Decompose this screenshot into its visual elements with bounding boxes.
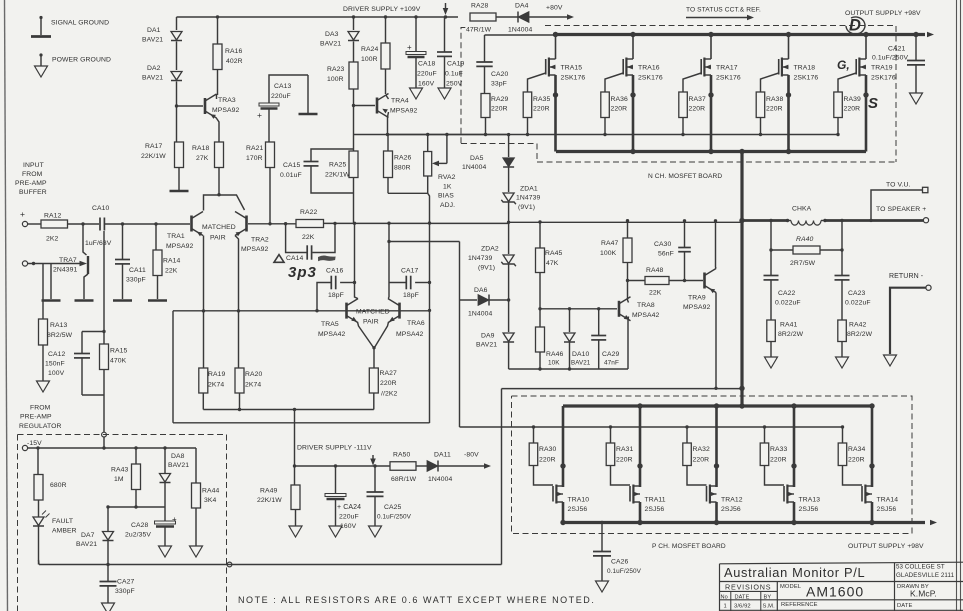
gate terminal — [22, 261, 27, 266]
svg-text:TRA9: TRA9 — [688, 295, 706, 302]
wire CA10-TRA1 — [105, 223, 190, 225]
inductor CHKA — [788, 220, 792, 222]
svg-text:CA26: CA26 — [611, 559, 629, 566]
wire CA13 bracket — [269, 75, 308, 103]
svg-text:CA28: CA28 — [131, 522, 149, 529]
node RA25/TRA5 — [353, 222, 356, 225]
svg-text:TO V.U.: TO V.U. — [886, 182, 911, 189]
node x429 — [428, 221, 431, 224]
svg-text:47nF: 47nF — [604, 360, 619, 367]
svg-text:TRA12: TRA12 — [721, 497, 743, 504]
power ground CA19 — [438, 88, 451, 99]
svg-text:880R: 880R — [394, 165, 411, 172]
capacitor CA16 wire — [317, 283, 331, 311]
svg-text:220R: 220R — [491, 106, 508, 113]
svg-text:REVISIONS: REVISIONS — [725, 583, 771, 592]
resistor RA28 — [470, 13, 496, 21]
power ground CA28 — [159, 546, 172, 557]
power ground CA18 — [410, 88, 423, 99]
svg-text:CA12: CA12 — [48, 351, 66, 358]
svg-text:BAV21: BAV21 — [476, 342, 497, 349]
wire RA18-pair node — [218, 168, 220, 195]
svg-text:RA32: RA32 — [693, 446, 711, 453]
power ground RA49 — [289, 526, 302, 537]
resistor RA18 — [215, 142, 224, 168]
node CA22 top — [769, 248, 772, 251]
node RA43 top — [134, 446, 137, 449]
node TRA5 base — [315, 309, 318, 312]
to status arrow — [686, 17, 747, 19]
driver supply +109V rail — [177, 16, 459, 18]
resistor RA26 — [387, 135, 389, 152]
node RA45 top — [538, 220, 541, 223]
diode DA8 BAV21 — [160, 474, 171, 483]
wire RA47-TRA8 — [627, 263, 629, 280]
power ground CA26 — [596, 581, 609, 592]
svg-text:SIGNAL GROUND: SIGNAL GROUND — [51, 20, 109, 27]
wire ZDA2-DA6 node — [508, 265, 510, 333]
svg-text:REFERENCE: REFERENCE — [781, 602, 818, 608]
svg-text:22K/1W: 22K/1W — [325, 172, 350, 179]
svg-text:ZDA2: ZDA2 — [481, 246, 499, 253]
transistor TRA5 MPSA42 — [345, 303, 348, 319]
svg-text:47K: 47K — [546, 260, 559, 267]
svg-text:RA18: RA18 — [192, 145, 210, 152]
signal ground RA14 — [148, 299, 167, 302]
wire TRA8 base — [540, 308, 617, 310]
return terminal — [926, 285, 931, 290]
capacitor CA15 — [304, 161, 319, 163]
node RA49 — [293, 464, 296, 467]
svg-text:MATCHED: MATCHED — [202, 224, 236, 231]
svg-text:220R: 220R — [689, 106, 706, 113]
svg-text:CA27: CA27 — [117, 579, 135, 586]
wire TRA8 emitter — [627, 317, 630, 370]
svg-text:RA43: RA43 — [111, 467, 129, 474]
wire CA15 top bracket — [311, 149, 354, 162]
svg-text:CA19: CA19 — [447, 61, 465, 68]
resistor RA21 — [266, 142, 275, 168]
wire DA10 bottom — [569, 343, 571, 370]
svg-text:RA22: RA22 — [300, 209, 318, 216]
wire RA43 top — [135, 448, 137, 464]
resistor RA12 — [41, 220, 68, 228]
capacitor CA30 56nF — [684, 221, 686, 248]
node RA48 left — [626, 279, 629, 282]
mosfet TRA12 2SJ56 — [714, 403, 719, 408]
svg-text:0.022uF: 0.022uF — [775, 300, 801, 307]
svg-text:+ CA24: + CA24 — [337, 504, 361, 511]
svg-text:RA17: RA17 — [145, 143, 163, 150]
node CA26 — [600, 521, 603, 524]
svg-text:22K: 22K — [165, 268, 178, 275]
power ground CA27 — [102, 603, 115, 611]
svg-text:MPSA42: MPSA42 — [318, 331, 346, 338]
wire DA7-bottom line — [107, 541, 109, 565]
diode DA2 — [171, 72, 182, 81]
wire x459.5 down — [459, 300, 461, 427]
svg-text:220uF: 220uF — [339, 514, 359, 521]
thin bus to CA20 — [485, 34, 554, 36]
svg-text:0.1uF: 0.1uF — [445, 71, 463, 78]
svg-text:8R2/5W: 8R2/5W — [47, 332, 73, 339]
mosfet TRA18 2SK176 — [786, 32, 791, 37]
svg-text:8R2/2W: 8R2/2W — [778, 331, 804, 338]
svg-text:TRA16: TRA16 — [638, 65, 660, 72]
svg-text:RA27: RA27 — [380, 370, 398, 377]
wire tap down — [103, 395, 105, 432]
svg-text:RA16: RA16 — [225, 48, 243, 55]
wire RA44 top — [195, 448, 197, 483]
svg-text:0.01uF: 0.01uF — [280, 172, 302, 179]
svg-text:RA13: RA13 — [50, 322, 68, 329]
svg-text:+: + — [257, 110, 262, 120]
wire mainline right of chain — [509, 221, 742, 223]
to VU wire — [871, 190, 923, 220]
svg-text:INPUT: INPUT — [23, 162, 44, 169]
svg-text:2K2: 2K2 — [46, 236, 59, 243]
node TRA8 base junction — [538, 307, 541, 310]
resistor RA49 — [291, 485, 300, 510]
svg-text:53 COLLEGE ST: 53 COLLEGE ST — [896, 564, 945, 571]
svg-text:CA30: CA30 — [654, 241, 672, 248]
svg-text:CA10: CA10 — [92, 205, 110, 212]
wire RA43-node507 — [135, 490, 137, 508]
jfet TRA7 2N4391 — [87, 256, 89, 274]
wire outer loop left — [172, 311, 174, 423]
svg-text:RA30: RA30 — [539, 446, 557, 453]
svg-text:RA28: RA28 — [471, 3, 489, 10]
svg-text:DA7: DA7 — [81, 532, 95, 539]
wire DA1-DA2 — [176, 42, 178, 71]
wire TRA9 collector — [715, 221, 718, 269]
svg-text:RA24: RA24 — [361, 46, 379, 53]
svg-text:470K: 470K — [110, 358, 127, 365]
wire bus left drop — [176, 17, 178, 30]
capacitor CA20 33pF — [484, 35, 486, 62]
mosfet TRA17 2SK176 — [708, 32, 713, 37]
svg-text:100K: 100K — [600, 250, 617, 257]
rail1 — [203, 409, 373, 411]
diode DA9 BAV21 — [503, 333, 514, 342]
main line mid — [323, 222, 508, 224]
wire RA44-ground — [195, 508, 197, 546]
node coil right — [823, 219, 826, 222]
wire LED-bottom line — [38, 527, 40, 565]
svg-text:TRA5: TRA5 — [321, 321, 339, 328]
wire x459.5 drop — [459, 242, 461, 301]
svg-text:220R: 220R — [611, 106, 628, 113]
resistor RA17 — [175, 142, 184, 168]
zener ZDA2 — [503, 255, 514, 264]
svg-text:S.M.: S.M. — [763, 604, 776, 610]
node CA12 bracket — [102, 330, 105, 333]
svg-text:2SJ56: 2SJ56 — [568, 506, 588, 513]
svg-text:1N4739: 1N4739 — [516, 195, 541, 202]
svg-text:RA14: RA14 — [163, 258, 181, 265]
svg-text:CA11: CA11 — [129, 267, 146, 274]
resistor RA47 — [623, 238, 632, 263]
power ground RA41 — [765, 357, 778, 368]
resistor RA46 — [536, 327, 545, 352]
resistor RA50 — [390, 462, 416, 471]
diode DA10 BAV21 — [564, 333, 575, 342]
resistor RA27 — [369, 368, 378, 393]
svg-text:+80V: +80V — [546, 5, 563, 12]
svg-text:RA26: RA26 — [394, 155, 412, 162]
svg-text:2R7/5W: 2R7/5W — [790, 260, 816, 267]
wire x389 to CA17 — [388, 223, 390, 297]
resistor RA13 — [39, 319, 48, 345]
svg-text:RA49: RA49 — [260, 488, 278, 495]
svg-text:220R: 220R — [539, 457, 556, 464]
svg-text:100V: 100V — [48, 370, 65, 377]
node TRA4 emitter — [386, 133, 389, 136]
svg-text:DRIVER SUPPLY +109V: DRIVER SUPPLY +109V — [343, 6, 421, 13]
wire 680R top — [37, 448, 39, 475]
svg-text:TRA2: TRA2 — [251, 237, 269, 244]
wire TRA5 emitter-yoke — [358, 322, 374, 348]
svg-text:K.McP.: K.McP. — [910, 589, 937, 599]
cap CA12 bracket top — [82, 331, 104, 333]
mosfet TRA19 2SK176 — [863, 32, 868, 37]
svg-text:MODEL: MODEL — [780, 584, 802, 590]
node CA16-TRA5col — [353, 281, 356, 284]
return wire — [890, 288, 926, 354]
svg-text:10K: 10K — [548, 360, 560, 367]
svg-text:PRE-AMP: PRE-AMP — [20, 414, 52, 421]
node feed-P bus — [739, 403, 744, 408]
diode DA5 1N4004 — [503, 158, 514, 167]
svg-text:RA29: RA29 — [491, 96, 509, 103]
svg-text:FAULT: FAULT — [52, 518, 73, 525]
svg-text:680R: 680R — [50, 482, 67, 489]
svg-text:BAV21: BAV21 — [571, 360, 591, 367]
svg-text:RA47: RA47 — [601, 240, 619, 247]
svg-text:1N4004: 1N4004 — [462, 164, 487, 171]
svg-text:TRA14: TRA14 — [877, 497, 899, 504]
-15V line — [28, 447, 196, 449]
wire DA8 top — [164, 448, 166, 474]
transistor TRA4 MPSA92 — [376, 98, 379, 114]
svg-text:CA15: CA15 — [283, 162, 301, 169]
svg-text:100R: 100R — [361, 56, 378, 63]
resistor RA20 — [235, 368, 244, 393]
wire RA24-TRA4 — [385, 69, 387, 94]
wire RA17-ground — [178, 168, 180, 191]
svg-text:RA25: RA25 — [329, 162, 347, 169]
wire TRA2em-RA20 — [238, 311, 240, 368]
svg-text:G,: G, — [837, 58, 850, 72]
svg-text:POWER GROUND: POWER GROUND — [52, 57, 111, 64]
gate drive line N — [387, 134, 838, 136]
svg-text:TRA15: TRA15 — [561, 65, 583, 72]
svg-text:GLADESVILLE 2111: GLADESVILLE 2111 — [896, 572, 955, 579]
svg-text:220R: 220R — [848, 457, 865, 464]
wire RA46-bottomwire — [539, 352, 541, 369]
svg-text:AMBER: AMBER — [52, 528, 77, 535]
svg-text:FROM: FROM — [30, 405, 51, 412]
supply entry arrow — [445, 3, 447, 9]
svg-text:220R: 220R — [770, 457, 787, 464]
svg-text:ADJ.: ADJ. — [440, 202, 455, 209]
svg-text:RA33: RA33 — [770, 446, 788, 453]
svg-text:BAV21: BAV21 — [142, 75, 163, 82]
svg-text:1N4004: 1N4004 — [508, 27, 533, 34]
wire center tap down — [294, 410, 296, 467]
node DA8 top — [163, 446, 166, 449]
svg-text:RA19: RA19 — [208, 371, 226, 378]
node feed-output wire — [739, 386, 744, 391]
wire 680R-LED — [38, 500, 40, 517]
resistor RA41 — [767, 320, 776, 342]
P gate line thin — [460, 426, 843, 428]
wire RA27-rail1 — [373, 393, 375, 410]
bias bottom bracket — [388, 192, 428, 194]
N board dashed border — [461, 28, 467, 144]
svg-text:-80V: -80V — [464, 452, 479, 459]
wire input-RA12 — [28, 223, 41, 225]
node bus-CA21 — [913, 32, 918, 37]
wire RA29-gateline — [485, 118, 487, 135]
node chain-mainline — [507, 221, 510, 224]
svg-text:PRE-AMP: PRE-AMP — [15, 180, 47, 187]
wire RA48-TRA9 base — [669, 280, 703, 282]
node DA7 top — [106, 505, 109, 508]
svg-text:CA18: CA18 — [418, 61, 436, 68]
svg-text:OUTPUT SUPPLY +98V: OUTPUT SUPPLY +98V — [848, 543, 924, 550]
wire bus-RA16 — [217, 17, 219, 44]
svg-text:BUFFER: BUFFER — [19, 189, 47, 196]
wire CA15 bottom bracket — [311, 166, 354, 193]
led FAULT AMBER — [33, 517, 44, 526]
svg-text:DA9: DA9 — [481, 333, 495, 340]
svg-text:MATCHED: MATCHED — [356, 309, 390, 316]
svg-text:(9V1): (9V1) — [478, 265, 495, 272]
svg-text:2SK176: 2SK176 — [561, 75, 586, 82]
node RA40 right — [840, 219, 843, 222]
wire DA4-arrow +80V — [529, 16, 567, 18]
supply entry arrow -111V — [372, 455, 374, 460]
node 680R top — [36, 446, 39, 449]
svg-text:220R: 220R — [766, 106, 783, 113]
node bus-CA18 — [414, 15, 417, 18]
svg-text:RA48: RA48 — [646, 267, 664, 274]
power ground RA42 — [836, 357, 849, 368]
wire TRA1em-RA19 — [203, 311, 205, 368]
diode DA11 1N4004 — [427, 461, 438, 472]
svg-text:DRIVER SUPPLY -111V: DRIVER SUPPLY -111V — [297, 445, 372, 452]
svg-text:BAV21: BAV21 — [142, 37, 163, 44]
speaker terminal — [923, 218, 928, 223]
capacitor CA14 bracket — [286, 224, 307, 253]
svg-text:CHKA: CHKA — [792, 206, 812, 213]
wire RA21-mainline — [269, 168, 271, 224]
TRA4 emitter node line — [354, 134, 509, 136]
diode DA3 — [348, 32, 359, 41]
node TRA4 base junction — [352, 104, 355, 107]
node RA43 bottom — [134, 505, 137, 508]
node line 507 — [108, 506, 165, 508]
svg-text:CA29: CA29 — [602, 351, 620, 358]
node x429-CA17 — [428, 281, 431, 284]
wire TRA2 emitter — [235, 236, 239, 312]
diode DA4 — [518, 12, 529, 23]
svg-text:TRA6: TRA6 — [407, 320, 425, 327]
svg-text:NOTE : ALL RESISTORS ARE 0.6 W: NOTE : ALL RESISTORS ARE 0.6 WATT EXCEPT… — [238, 595, 595, 605]
svg-text:18pF: 18pF — [328, 292, 344, 299]
svg-text:RA36: RA36 — [611, 96, 629, 103]
wire RA13-ground — [42, 345, 44, 381]
resistor RA43 — [132, 464, 141, 490]
svg-text:TO SPEAKER +: TO SPEAKER + — [876, 206, 926, 213]
wire TRA4 base — [354, 105, 376, 107]
capacitor CA17 18pF — [405, 276, 407, 290]
wire CA17 right — [415, 282, 429, 284]
svg-text:160V: 160V — [418, 81, 435, 88]
resistor RA42 — [838, 320, 847, 342]
svg-text:RA12: RA12 — [44, 213, 62, 220]
node coil left — [786, 219, 789, 222]
node TRA3 base — [175, 104, 178, 107]
capacitor CA27 — [107, 565, 109, 582]
wire TRA9 emitter — [715, 293, 717, 389]
node TRA9 collector — [714, 219, 717, 222]
svg-text:0.022uF: 0.022uF — [845, 300, 871, 307]
node TRA2em-line — [237, 309, 240, 312]
wire RA48 left — [628, 280, 646, 282]
wire RA45-RA46 — [539, 273, 541, 328]
capacitor CA14 — [306, 245, 308, 259]
svg-text:No: No — [721, 594, 728, 600]
svg-text:1: 1 — [724, 604, 727, 610]
mosfet TRA16 2SK176 — [630, 32, 635, 37]
node RA47 top — [626, 219, 629, 222]
capacitor CA28 wire — [164, 507, 166, 521]
wire RA41-ground — [770, 342, 772, 358]
wire CA28-ground — [164, 527, 166, 547]
wire gateline-DA5 — [508, 135, 510, 157]
svg-text:RA40: RA40 — [796, 236, 814, 243]
svg-text:+: + — [172, 515, 177, 524]
capacitor CA29 47nF — [591, 335, 606, 337]
svg-text:47R/1W: 47R/1W — [466, 27, 492, 34]
wire RVA2-mainline — [428, 193, 430, 223]
svg-text:DATE: DATE — [735, 594, 750, 600]
node bus-DA3 — [352, 15, 355, 18]
svg-text:1uF/63V: 1uF/63V — [85, 240, 112, 247]
svg-text:RA46: RA46 — [546, 351, 564, 358]
resistor RA23 — [349, 62, 358, 89]
diode DA6 1N4004 — [478, 295, 489, 306]
mosfet TRA10 2SJ56 — [562, 406, 565, 487]
signal ground CA13 — [307, 75, 309, 113]
svg-text:+: + — [407, 43, 412, 52]
wire RA25-mainline — [353, 178, 355, 224]
svg-text:DATE: DATE — [897, 603, 912, 609]
vas tee wire — [389, 241, 460, 243]
svg-text:RA37: RA37 — [689, 96, 707, 103]
svg-text:220R: 220R — [616, 457, 633, 464]
input pair base line — [173, 310, 430, 312]
node rail1 center tap — [293, 408, 296, 411]
node DA7-bottom — [106, 563, 109, 566]
wire mainline-ZDA2 — [508, 222, 510, 254]
svg-text:MPSA42: MPSA42 — [632, 312, 660, 319]
VU terminal square — [923, 187, 928, 192]
svg-text:CA21: CA21 — [888, 46, 906, 53]
node CA11 — [121, 222, 124, 225]
